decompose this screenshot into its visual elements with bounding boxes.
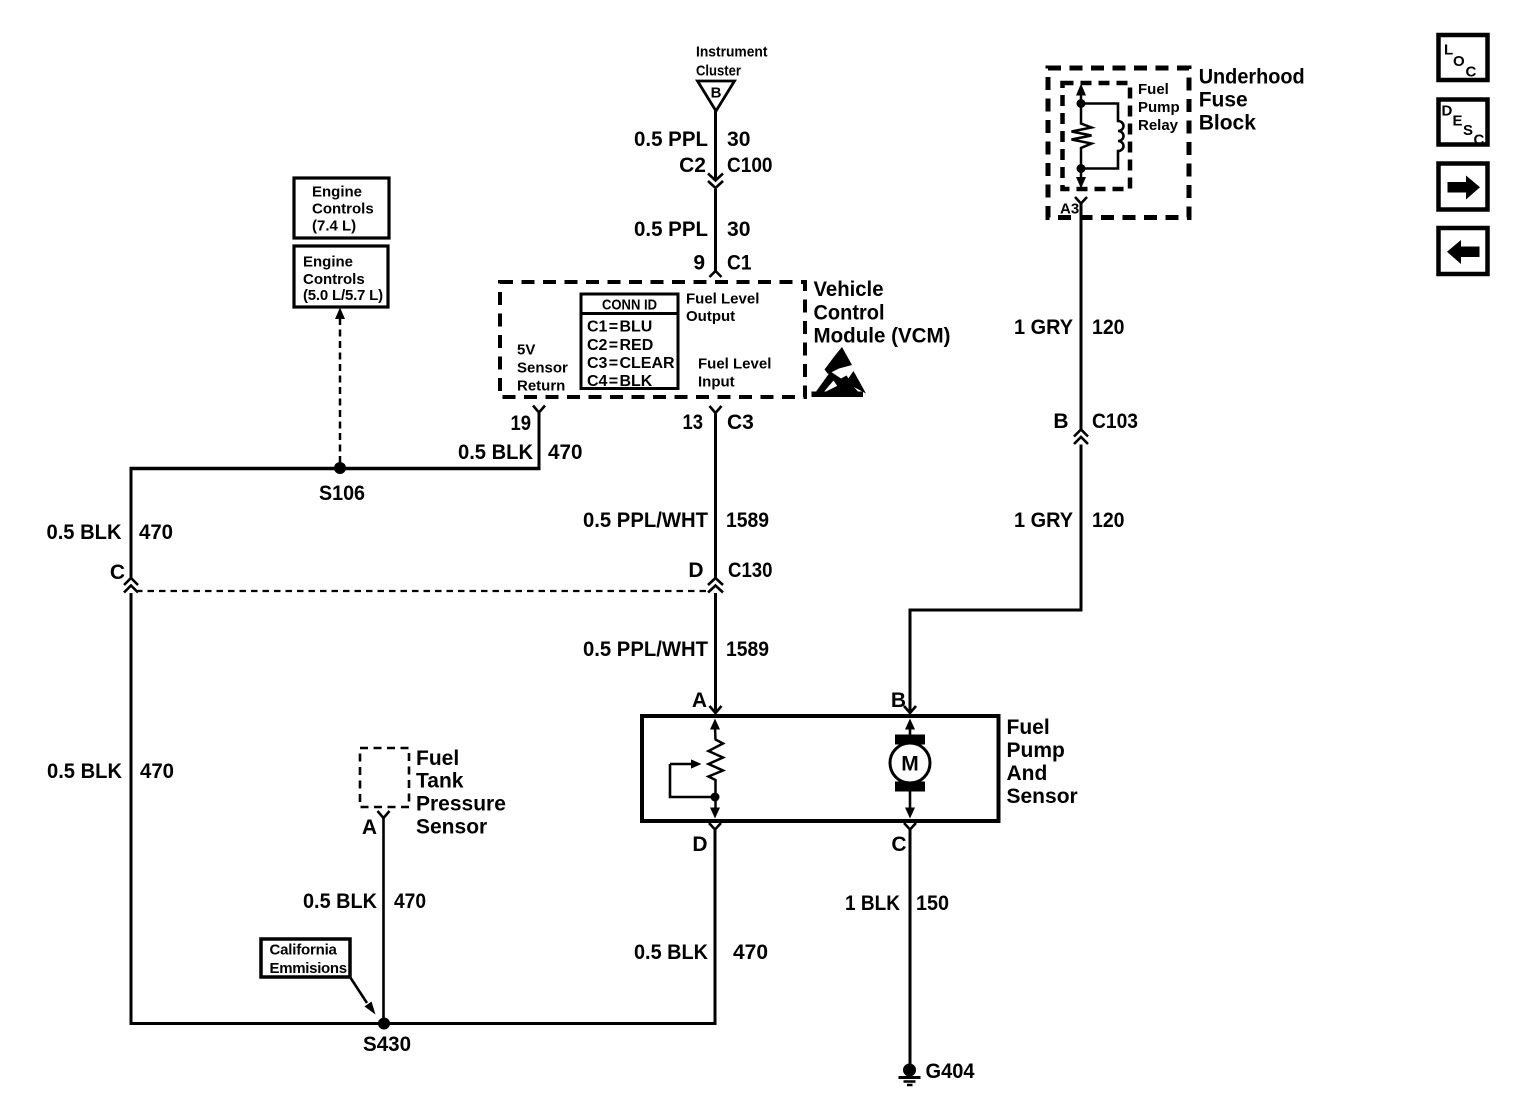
ground G404 [899, 1060, 975, 1085]
svg-text:CONN ID: CONN ID [602, 297, 657, 314]
svg-text:Input: Input [698, 374, 735, 391]
junction dot (relay bottom) [1077, 164, 1086, 173]
svg-text:C: C [1466, 64, 1477, 81]
svg-text:150: 150 [916, 892, 949, 915]
svg-text:B: B [891, 689, 906, 712]
engine controls (7.4 L) box [294, 178, 389, 238]
svg-text:120: 120 [1092, 316, 1125, 339]
svg-text:Sensor: Sensor [517, 360, 568, 377]
relay resistor element [1072, 95, 1092, 177]
svg-text:0.5 BLK: 0.5 BLK [634, 941, 708, 964]
svg-text:Block: Block [1199, 112, 1257, 135]
svg-text:Control: Control [814, 302, 885, 325]
svg-text:0.5 PPL/WHT: 0.5 PPL/WHT [583, 638, 708, 661]
svg-text:Controls: Controls [312, 201, 374, 218]
label Underhood Fuse Block [1199, 66, 1305, 135]
label 0.5 BLK 470 [303, 890, 426, 913]
svg-text:L: L [1444, 42, 1453, 59]
dashed wire S106 to engine controls [339, 318, 342, 463]
splice S106 junction dot [334, 462, 346, 474]
relay coil branch wire [1081, 104, 1124, 169]
svg-text:B: B [1053, 410, 1068, 433]
dashed wire C to C130 [136, 590, 707, 592]
label 0.5 BLK 470 [458, 441, 583, 464]
label 0.5 PPL/WHT 1589 [583, 509, 769, 532]
pin 9 C1 labels [693, 252, 751, 275]
svg-text:Fuel: Fuel [416, 747, 459, 770]
label 1 BLK 150 [845, 892, 949, 915]
svg-text:S106: S106 [319, 482, 365, 505]
svg-text:Sensor: Sensor [416, 816, 487, 839]
svg-text:D: D [688, 559, 703, 582]
svg-text:19: 19 [511, 412, 532, 435]
svg-text:E: E [1453, 113, 1463, 130]
svg-text:A3: A3 [1060, 201, 1079, 218]
svg-text:C2: C2 [679, 154, 706, 177]
wire 0.5 PPL/WHT 1589 (C130 to pump A) [714, 593, 717, 713]
svg-text:Underhood: Underhood [1199, 66, 1305, 89]
svg-text:0.5 PPL: 0.5 PPL [634, 128, 708, 151]
svg-text:(7.4 L): (7.4 L) [312, 218, 356, 235]
wire 0.5 PPL 30 (C100 to VCM pin 9) [714, 189, 717, 272]
svg-text:Instrument: Instrument [696, 44, 768, 61]
svg-text:S: S [1463, 122, 1473, 139]
svg-text:Output: Output [686, 308, 735, 325]
arrow head into engine controls box [335, 308, 345, 320]
svg-text:C103: C103 [1092, 410, 1138, 433]
label 1 GRY 120 [1014, 509, 1125, 532]
svg-text:1589: 1589 [726, 509, 769, 532]
svg-text:5V: 5V [517, 342, 535, 359]
svg-text:And: And [1007, 762, 1048, 785]
label 1 GRY 120 [1014, 316, 1125, 339]
junction dot (relay top) [1077, 99, 1086, 108]
arrow up (relay top terminal) [1076, 84, 1086, 96]
label 0.5 BLK 470 [47, 521, 174, 544]
svg-text:30: 30 [727, 128, 751, 151]
label 0.5 BLK 470 [47, 760, 174, 783]
wire 1 GRY 120 (C103 to pump B) [910, 445, 1081, 714]
CONN ID table [581, 294, 678, 390]
svg-text:Engine: Engine [312, 184, 362, 201]
svg-text:California: California [270, 942, 338, 959]
svg-text:30: 30 [727, 218, 751, 241]
svg-text:470: 470 [139, 521, 173, 544]
svg-text:0.5 BLK: 0.5 BLK [303, 890, 377, 913]
svg-text:(5.0 L/5.7 L): (5.0 L/5.7 L) [303, 287, 383, 304]
pin A connector cavity [378, 811, 390, 818]
connector C130 (inline chevrons) [708, 578, 723, 593]
svg-text:Pump: Pump [1138, 99, 1180, 116]
svg-text:470: 470 [394, 890, 426, 913]
label 5V Sensor Return [517, 342, 568, 395]
svg-text:470: 470 [548, 441, 583, 464]
svg-text:13: 13 [683, 411, 704, 434]
pin C connector cavity [904, 823, 916, 830]
ESD sensitivity symbol [812, 347, 867, 397]
svg-text:A: A [362, 816, 377, 839]
svg-text:Vehicle: Vehicle [814, 278, 884, 301]
svg-text:C3 = CLEAR: C3 = CLEAR [587, 355, 675, 372]
svg-text:120: 120 [1092, 509, 1125, 532]
instrument cluster triangle symbol B [698, 81, 735, 111]
svg-text:Fuel: Fuel [1138, 81, 1169, 98]
svg-text:C3: C3 [727, 411, 754, 434]
wire 0.5 BLK 470 (sensor A to S430) [382, 818, 385, 1024]
svg-text:D: D [692, 833, 707, 856]
svg-text:470: 470 [140, 760, 174, 783]
DESC button [1439, 100, 1488, 149]
label Fuel Tank Pressure Sensor [416, 747, 506, 839]
VCM module dashed box [500, 282, 805, 397]
instrument cluster label [696, 44, 768, 80]
arrow down (relay bottom terminal) [1076, 177, 1086, 189]
svg-text:O: O [1453, 53, 1465, 70]
svg-text:Fuse: Fuse [1199, 89, 1248, 112]
label 0.5 PPL 30 [634, 128, 751, 151]
svg-text:Tank: Tank [416, 770, 464, 793]
pin 19 connector cavity [533, 406, 545, 413]
svg-text:C: C [891, 833, 906, 856]
svg-text:C: C [110, 561, 125, 584]
label Fuel Pump Relay [1138, 81, 1180, 134]
wire 0.5 PPL 30 (cluster to C100) [714, 110, 717, 180]
label Vehicle Control Module (VCM) [814, 278, 951, 348]
svg-text:C130: C130 [728, 559, 773, 582]
svg-text:Fuel: Fuel [1007, 716, 1050, 739]
wire 0.5 BLK 470 (C down to bottom run) [130, 593, 133, 1025]
svg-text:Fuel Level: Fuel Level [698, 356, 771, 373]
svg-text:Return: Return [517, 378, 565, 395]
fuel pump and sensor box [642, 716, 999, 821]
svg-text:Pressure: Pressure [416, 793, 506, 816]
label Fuel Level Output [686, 291, 759, 326]
pin 13 connector cavity [710, 406, 722, 413]
california emissions pointer arrow [350, 977, 376, 1015]
label Fuel Level Input [698, 356, 771, 391]
label D C130 [688, 559, 772, 582]
next arrow button [1439, 164, 1488, 210]
label 0.5 BLK 470 [634, 941, 768, 964]
svg-text:M: M [901, 753, 919, 776]
connector C (inline chevrons) [124, 578, 138, 593]
label Fuel Pump And Sensor [1007, 716, 1078, 808]
previous arrow button [1439, 228, 1488, 274]
svg-text:C100: C100 [727, 154, 773, 177]
label B C103 [1053, 410, 1138, 433]
svg-text:0.5 BLK: 0.5 BLK [47, 760, 122, 783]
fuel tank pressure sensor dashed box [360, 748, 409, 807]
svg-text:Module (VCM): Module (VCM) [814, 325, 951, 348]
svg-text:Sensor: Sensor [1007, 785, 1078, 808]
svg-text:1 GRY: 1 GRY [1014, 316, 1073, 339]
underhood fuse block outer dashed box [1048, 68, 1189, 218]
svg-text:Engine: Engine [303, 254, 353, 271]
label 0.5 PPL/WHT 1589 [583, 638, 769, 661]
wire 0.5 BLK 470 (left vertical to C) [130, 467, 133, 579]
svg-text:D: D [1442, 103, 1453, 120]
svg-text:S430: S430 [363, 1033, 411, 1056]
svg-text:C4 = BLK: C4 = BLK [587, 373, 653, 390]
svg-text:0.5 PPL: 0.5 PPL [634, 218, 708, 241]
svg-text:1 BLK: 1 BLK [845, 892, 900, 915]
svg-text:Fuel Level: Fuel Level [686, 291, 759, 308]
LOC button [1439, 35, 1488, 81]
svg-text:C1: C1 [727, 252, 752, 275]
svg-text:C1 = BLU: C1 = BLU [587, 319, 652, 336]
svg-text:A: A [692, 689, 707, 712]
pin 9 connector cavity at VCM [710, 271, 722, 277]
pin D connector cavity [709, 823, 721, 830]
pin A3 connector cavity [1075, 197, 1087, 204]
svg-text:470: 470 [733, 941, 768, 964]
wire 0.5 BLK 470 (pin 19 down to S106) [538, 413, 541, 468]
wire 0.5 BLK 470 (S106 horizontal run) [130, 467, 541, 471]
pin B connector cavity [904, 706, 916, 713]
svg-text:C: C [1474, 132, 1485, 149]
connector C100 (inline chevrons) [708, 174, 723, 189]
svg-text:G404: G404 [926, 1060, 975, 1083]
svg-text:1589: 1589 [726, 638, 769, 661]
wire bottom horizontal run to S430 [130, 1022, 717, 1025]
splice S430 junction dot [378, 1018, 390, 1030]
pin A connector cavity [710, 706, 722, 713]
wire 0.5 BLK 470 (pump D down) [714, 830, 717, 1024]
svg-text:9: 9 [693, 252, 705, 275]
svg-text:1 GRY: 1 GRY [1014, 509, 1073, 532]
fuel pump motor M [890, 719, 930, 819]
wire 0.5 PPL/WHT 1589 (pin 13 to C130) [714, 413, 717, 579]
wire 1 BLK 150 (pump C to G404) [909, 830, 912, 1065]
connector C103 (inline chevrons) [1074, 430, 1088, 445]
svg-text:C2 = RED: C2 = RED [587, 337, 653, 354]
svg-text:B: B [711, 85, 722, 102]
svg-text:0.5 BLK: 0.5 BLK [458, 441, 533, 464]
fuel pump relay inner dashed box [1063, 83, 1131, 189]
svg-text:Controls: Controls [303, 271, 365, 288]
pin 13 C3 labels [683, 411, 754, 434]
svg-text:Emmisions: Emmisions [270, 960, 347, 977]
svg-text:Relay: Relay [1138, 117, 1179, 134]
california emissions note box [261, 939, 350, 977]
svg-text:0.5 PPL/WHT: 0.5 PPL/WHT [583, 509, 708, 532]
label C2 C100 [679, 154, 772, 177]
svg-text:Cluster: Cluster [696, 63, 741, 80]
engine controls (5.0 L/5.7 L) box [294, 246, 388, 307]
wire 1 GRY 120 (A3 to C103) [1080, 204, 1083, 431]
label 0.5 PPL 30 [634, 218, 751, 241]
fuel level sender (variable resistor) [670, 719, 723, 819]
svg-text:0.5 BLK: 0.5 BLK [47, 521, 122, 544]
svg-text:Pump: Pump [1007, 739, 1065, 762]
